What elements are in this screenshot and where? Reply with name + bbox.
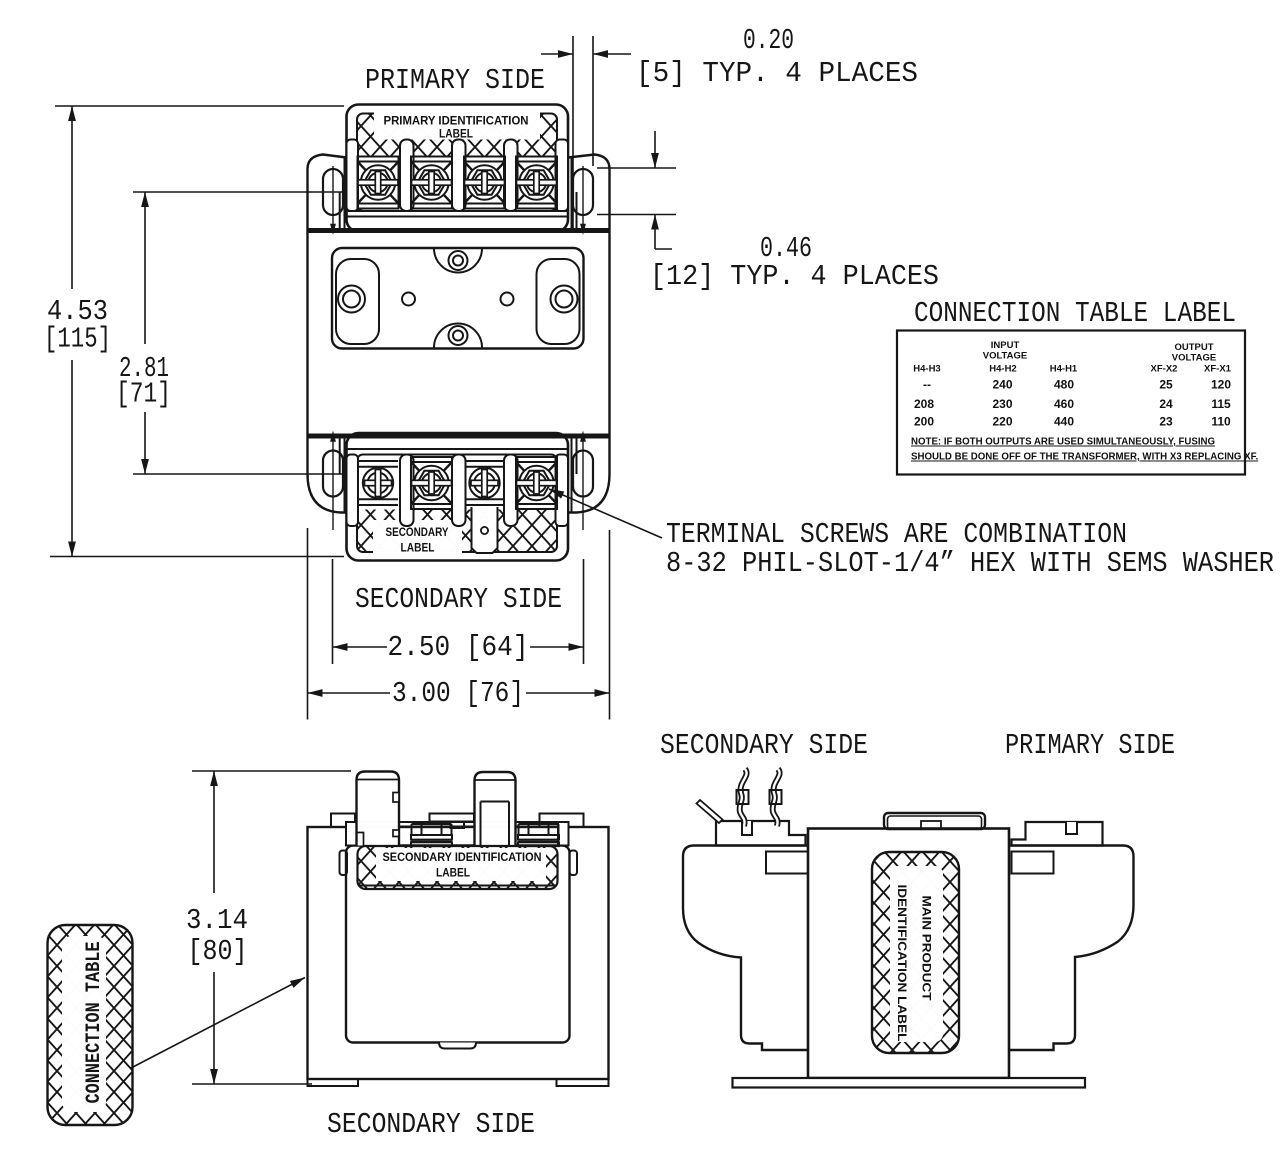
svg-text:240: 240 — [992, 378, 1012, 392]
slot centerline bottom-left — [330, 431, 336, 531]
primary barrier finger 3 — [504, 140, 518, 212]
primary screw 3 — [464, 157, 505, 209]
svg-text:[80]: [80] — [188, 935, 248, 968]
connection table label leader — [131, 978, 305, 1069]
secondary screw 4 — [516, 457, 557, 509]
svg-text:H4-H2: H4-H2 — [989, 364, 1016, 375]
body top edge thick — [308, 228, 610, 233]
dimension 4.53 [115] — [55, 105, 344, 107]
front hatch band bottom line — [359, 885, 556, 887]
front frame — [308, 827, 609, 1079]
front terminal ledge lines — [357, 821, 558, 823]
dimension 0.46 [12] TYP 4 PLACES — [597, 167, 676, 169]
plate bottom screw with boss — [434, 324, 482, 348]
svg-text:SECONDARY IDENTIFICATION: SECONDARY IDENTIFICATION — [383, 852, 542, 864]
core plate — [332, 248, 584, 349]
svg-text:25: 25 — [1159, 378, 1173, 392]
side right terminal block — [1012, 822, 1103, 846]
side core — [808, 829, 1009, 1079]
svg-text:CONNECTION TABLE LABEL: CONNECTION TABLE LABEL — [914, 297, 1236, 330]
svg-text:XF-X1: XF-X1 — [1204, 364, 1232, 375]
front screw terminal 4 — [518, 824, 559, 846]
dimension 0.20 [5] TYP 4 PLACES — [572, 36, 574, 230]
slot centerline top-right — [580, 166, 586, 235]
secondary screw 1 plain — [358, 461, 398, 505]
front frame ear right — [540, 814, 584, 828]
svg-text:480: 480 — [1054, 378, 1074, 392]
side right block notch — [1066, 822, 1077, 834]
svg-text:2.50 [64]: 2.50 [64] — [388, 631, 529, 664]
svg-text:NOTE: IF BOTH OUTPUTS ARE USED: NOTE: IF BOTH OUTPUTS ARE USED SIMULTANE… — [911, 437, 1215, 448]
side wire guard diagonal — [697, 800, 723, 823]
svg-text:230: 230 — [992, 397, 1012, 411]
svg-text:SECONDARY: SECONDARY — [386, 527, 449, 539]
neck line left top — [344, 158, 346, 229]
svg-text:H4-H1: H4-H1 — [1050, 364, 1078, 375]
primary block ledge lines — [347, 210, 568, 212]
primary label hatch band — [358, 115, 556, 157]
plate small hole right — [501, 293, 514, 306]
svg-text:SHOULD BE DONE OFF OF THE TRAN: SHOULD BE DONE OFF OF THE TRANSFORMER, W… — [911, 452, 1258, 463]
svg-text:460: 460 — [1054, 397, 1074, 411]
side right bracket window — [1012, 852, 1054, 874]
svg-text:[5] TYP. 4 PLACES: [5] TYP. 4 PLACES — [636, 57, 918, 90]
svg-text:SECONDARY SIDE: SECONDARY SIDE — [660, 729, 868, 762]
svg-text:8-32 PHIL-SLOT-1/4” HEX WITH S: 8-32 PHIL-SLOT-1/4” HEX WITH SEMS WASHER — [666, 547, 1274, 580]
side left block notch — [742, 821, 752, 835]
dimension 2.81 [71] — [133, 191, 344, 193]
svg-text:PRIMARY IDENTIFICATION: PRIMARY IDENTIFICATION — [384, 116, 529, 128]
terminal screw callout leader — [549, 489, 662, 538]
front band side tab right — [570, 851, 578, 876]
side right bracket — [1009, 846, 1134, 1051]
primary block inner boundary — [357, 114, 557, 212]
connection table label sticker — [48, 925, 133, 1125]
svg-text:3.14: 3.14 — [186, 904, 248, 937]
secondary label hatch band — [358, 510, 556, 552]
side left bracket window — [766, 852, 808, 874]
secondary barrier finger 2 — [452, 455, 466, 527]
secondary barrier wall right — [556, 455, 569, 527]
neck line right top — [571, 158, 573, 229]
svg-text:IDENTIFICATION LABEL: IDENTIFICATION LABEL — [895, 885, 909, 1042]
neck line right bottom — [571, 437, 573, 512]
secondary block upper ledge line — [347, 448, 568, 450]
svg-text:H4-H3: H4-H3 — [913, 364, 940, 375]
front screw terminal 2 — [411, 824, 452, 846]
svg-text:SECONDARY SIDE: SECONDARY SIDE — [327, 1108, 535, 1141]
secondary label white window — [373, 520, 462, 554]
primary barrier finger 2 — [452, 140, 466, 212]
svg-text:440: 440 — [1054, 415, 1074, 429]
secondary barrier finger 3 — [504, 455, 518, 527]
svg-text:120: 120 — [1211, 378, 1231, 392]
secondary block inner boundary — [357, 455, 557, 553]
svg-text:MAIN PRODUCT: MAIN PRODUCT — [920, 896, 934, 1002]
dimension 3.00 [76] — [307, 528, 309, 720]
svg-text:0.20: 0.20 — [743, 24, 794, 57]
svg-text:[71]: [71] — [116, 378, 171, 411]
front coil bottom notch — [439, 1043, 476, 1049]
front hatch band white window — [376, 848, 546, 881]
secondary screw 3 plain — [465, 461, 505, 505]
svg-text:LABEL: LABEL — [439, 129, 473, 141]
body right silhouette — [565, 155, 610, 513]
body bottom edge thick — [308, 434, 610, 439]
svg-text:VOLTAGE: VOLTAGE — [983, 351, 1028, 362]
plate screw left — [338, 286, 365, 313]
slot centerline bottom-right — [580, 431, 586, 531]
body left silhouette — [308, 155, 353, 513]
front qc terminal 1 — [357, 772, 400, 846]
svg-text:110: 110 — [1211, 415, 1231, 429]
svg-text:PRIMARY SIDE: PRIMARY SIDE — [365, 64, 545, 97]
side wire 2 — [773, 769, 780, 826]
side core top cap — [884, 813, 985, 829]
svg-text:SECONDARY SIDE: SECONDARY SIDE — [355, 583, 562, 616]
secondary screw 2 — [411, 457, 452, 509]
svg-text:XF-X2: XF-X2 — [1151, 364, 1178, 375]
primary screw 4 — [516, 157, 557, 209]
front terminal end wall right — [558, 822, 569, 846]
front frame ear left — [331, 814, 355, 828]
svg-text:OUTPUT: OUTPUT — [1174, 342, 1213, 353]
dimension 3.14 [80] — [192, 771, 351, 1084]
primary barrier finger 1 — [400, 140, 414, 212]
primary barrier wall right — [556, 140, 569, 212]
main product identification label — [872, 852, 959, 1053]
svg-text:23: 23 — [1159, 415, 1173, 429]
dimension 2.50 [64] — [332, 559, 334, 664]
mounting slot top-left — [323, 169, 343, 215]
svg-text:PRIMARY SIDE: PRIMARY SIDE — [1005, 729, 1175, 762]
front qc terminal 3 — [475, 772, 516, 846]
secondary barrier wall left — [347, 455, 359, 527]
svg-text:LABEL: LABEL — [436, 868, 470, 880]
svg-text:VOLTAGE: VOLTAGE — [1172, 353, 1217, 364]
primary screw 1 — [358, 157, 399, 209]
primary screw 2 — [411, 157, 452, 209]
mounting slot top-right — [573, 169, 593, 215]
secondary terminal block housing — [347, 433, 569, 561]
front hatch band — [358, 846, 558, 889]
primary label white window — [374, 113, 540, 140]
plate small hole left — [402, 293, 415, 306]
svg-text:CONNECTION TABLE: CONNECTION TABLE — [83, 942, 106, 1104]
quick connect tab — [472, 507, 498, 553]
mounting slot bottom-left — [323, 451, 343, 497]
svg-text:220: 220 — [992, 415, 1012, 429]
secondary barrier finger 1 — [400, 455, 414, 527]
primary barrier wall left — [347, 140, 359, 212]
plate slot left — [336, 259, 379, 344]
front terminal end wall left — [346, 822, 357, 846]
svg-text:115: 115 — [1211, 397, 1231, 411]
svg-text:[115]: [115] — [44, 323, 111, 356]
side wire 1 — [740, 769, 747, 826]
neck line left bottom — [344, 437, 346, 512]
side left terminal block — [716, 821, 806, 846]
svg-text:INPUT: INPUT — [991, 340, 1020, 351]
side left bracket — [683, 846, 808, 1051]
front foot left — [308, 1079, 359, 1086]
front foot right — [557, 1079, 609, 1086]
svg-text:3.00 [76]: 3.00 [76] — [392, 677, 524, 710]
svg-text:LABEL: LABEL — [401, 543, 435, 555]
mounting slot bottom-right — [573, 451, 593, 497]
plate screw right — [551, 286, 578, 313]
front band side tab left — [340, 851, 348, 876]
slot centerline top-left — [330, 166, 336, 235]
plate slot right — [537, 259, 580, 344]
primary terminal block housing — [347, 105, 569, 232]
svg-text:[12] TYP. 4 PLACES: [12] TYP. 4 PLACES — [650, 260, 939, 293]
front center barrier — [430, 814, 475, 822]
side base plate — [733, 1078, 1086, 1088]
front coil body — [346, 846, 570, 1043]
svg-text:200: 200 — [914, 415, 934, 429]
svg-text:24: 24 — [1159, 397, 1173, 411]
plate top screw with boss — [434, 249, 482, 273]
svg-text:--: -- — [923, 378, 931, 392]
svg-text:208: 208 — [914, 397, 934, 411]
connection table border — [897, 331, 1245, 475]
